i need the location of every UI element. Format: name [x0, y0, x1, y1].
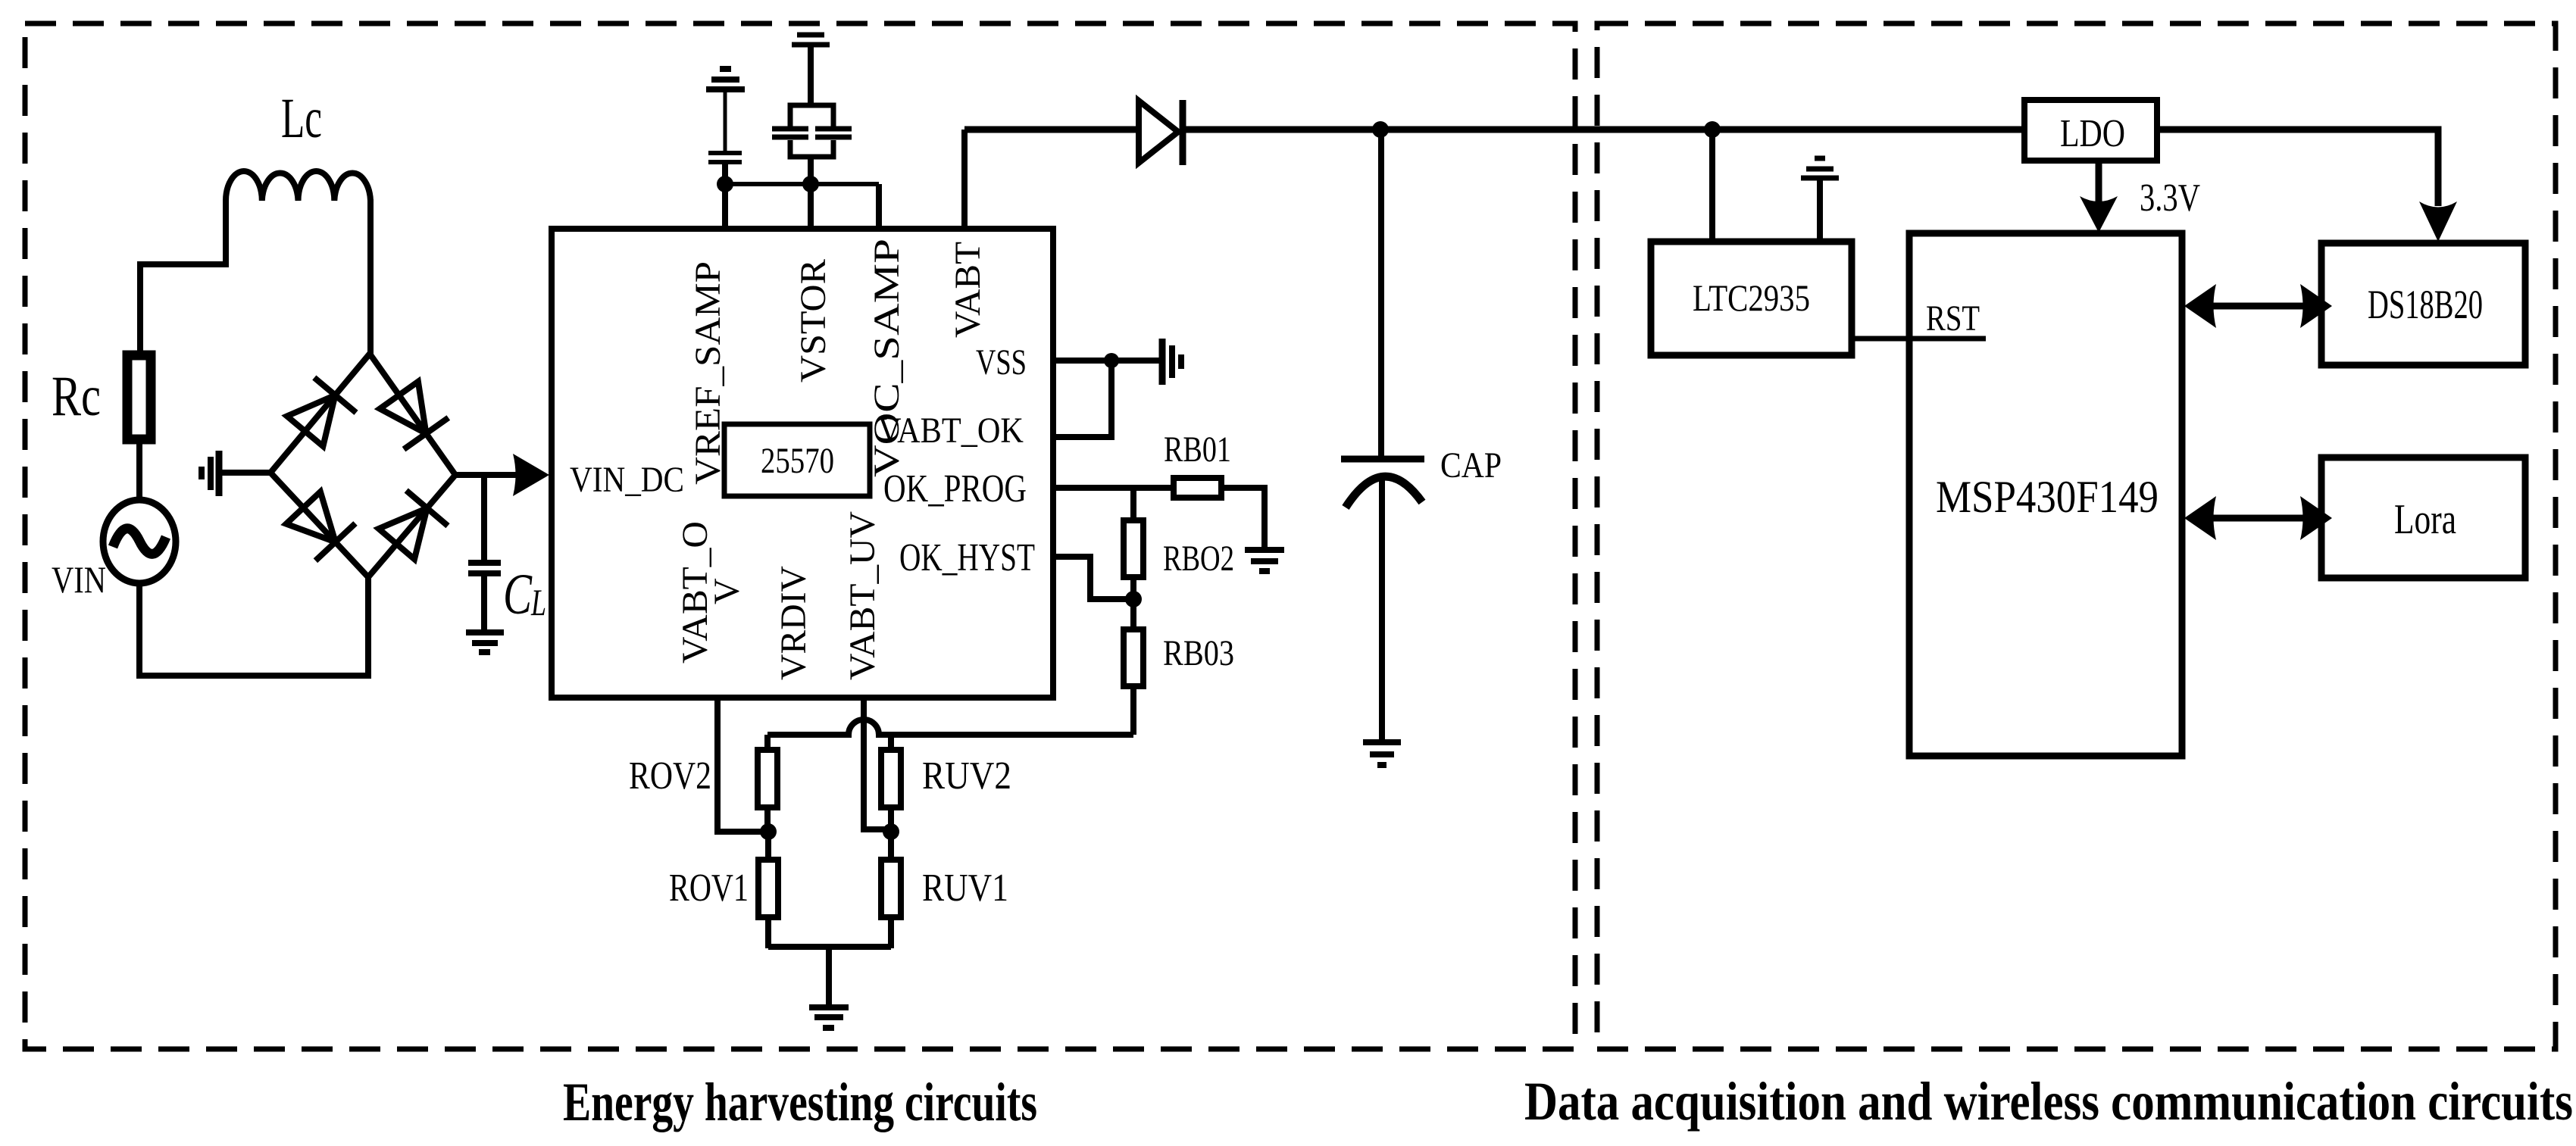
- ground below CAP: [1363, 742, 1401, 765]
- ground at VSS (pointing right): [1162, 339, 1181, 385]
- svg-text:VREF_SAMP: VREF_SAMP: [688, 261, 728, 485]
- svg-text:Rc: Rc: [52, 365, 101, 428]
- svg-text:L: L: [530, 581, 546, 623]
- pin label OK_HYST: [899, 536, 1035, 579]
- double arrow MSP to DS18B20: [2184, 284, 2332, 328]
- label RB01: [1164, 429, 1231, 470]
- svg-text:OK_PROG: OK_PROG: [883, 467, 1027, 511]
- dashed frame: energy harvesting box: [25, 23, 1575, 1049]
- node at VREF pin: [717, 176, 733, 192]
- ground below CL: [466, 632, 504, 652]
- svg-text:ROV2: ROV2: [629, 754, 711, 798]
- svg-text:DS18B20: DS18B20: [2368, 282, 2483, 327]
- resistor Rc: [127, 355, 151, 439]
- node LTC tap: [1704, 121, 1721, 138]
- wire LDO to DS18B20: [2157, 130, 2438, 206]
- block Lora: [2321, 457, 2525, 578]
- block DS18B20: [2321, 243, 2525, 365]
- label RBO2: [1163, 539, 1234, 579]
- svg-text:VIN_DC: VIN_DC: [570, 460, 684, 500]
- wire VABT_OV pin: [717, 698, 768, 832]
- block LTC2935: [1651, 242, 1852, 355]
- pin label VREF_SAMP: [688, 261, 728, 485]
- resistor RUV1: [881, 832, 901, 948]
- label RUV1: [922, 867, 1008, 910]
- svg-text:C: C: [503, 563, 533, 626]
- wire divider bottom: [768, 947, 891, 1005]
- svg-text:VRDIV: VRDIV: [774, 566, 814, 680]
- ground above LTC (inverted): [1801, 158, 1839, 242]
- svg-text:Lc: Lc: [281, 87, 322, 150]
- pin label VSS: [976, 342, 1027, 383]
- ground after RB01: [1245, 550, 1284, 571]
- svg-text:Lora: Lora: [2394, 496, 2456, 543]
- label VIN: [52, 558, 106, 601]
- svg-text:ROV1: ROV1: [669, 867, 749, 910]
- label RB03: [1163, 633, 1234, 673]
- resistor ROV1: [758, 832, 778, 948]
- wire top pins bus: [725, 182, 879, 186]
- wire RBO2 to RB03: [1130, 577, 1136, 629]
- resistor RBO2: [1124, 520, 1143, 577]
- svg-text:Data acquisition and wireless: Data acquisition and wireless communicat…: [1524, 1071, 2573, 1132]
- capacitor at VREF_SAMP: [708, 153, 742, 162]
- svg-text:MSP430F149: MSP430F149: [1936, 472, 2159, 522]
- ground below dividers: [809, 1007, 849, 1028]
- caption: Data acquisition and wireless communication circuits: [1524, 1071, 2573, 1132]
- caption: Energy harvesting circuits: [563, 1072, 1037, 1132]
- wire down to CAP: [1378, 130, 1384, 456]
- capacitor CAP (polarized): [1341, 459, 1424, 507]
- diode bridge bottom-left: [286, 492, 355, 561]
- resistor ROV2: [758, 735, 777, 832]
- label RST: [1926, 298, 1980, 339]
- svg-text:LTC2935: LTC2935: [1693, 276, 1810, 319]
- pin label OK_PROG: [883, 467, 1027, 511]
- svg-text:3.3V: 3.3V: [2140, 176, 2200, 220]
- svg-text:VABT: VABT: [948, 242, 988, 338]
- pin label VABT_OK: [878, 411, 1024, 451]
- svg-text:Energy harvesting circuits: Energy harvesting circuits: [563, 1072, 1037, 1132]
- pin label VIN_DC: [570, 460, 684, 500]
- svg-text:RB01: RB01: [1164, 429, 1231, 470]
- block MSP430F149: [1909, 233, 2182, 756]
- wire VOC_SAMP pin: [876, 184, 882, 229]
- wire top rail right: [1183, 126, 2024, 133]
- label ROV1: [669, 867, 749, 910]
- svg-text:RUV1: RUV1: [922, 867, 1008, 910]
- wire VABT riser: [961, 130, 968, 229]
- wire RST: [1852, 336, 1986, 342]
- wire RB01 to ground: [1221, 488, 1265, 548]
- bridge rectifier frame: [270, 354, 455, 577]
- svg-text:RBO2: RBO2: [1163, 539, 1234, 579]
- wire VABT_UV pin: [864, 698, 891, 829]
- diode bridge top-left: [287, 378, 356, 447]
- double arrow MSP to Lora: [2184, 496, 2332, 540]
- resistor RB03: [1124, 629, 1143, 686]
- svg-text:RST: RST: [1926, 298, 1980, 339]
- svg-text:OK_HYST: OK_HYST: [899, 536, 1035, 579]
- svg-text:25570: 25570: [761, 441, 834, 481]
- svg-text:V: V: [707, 578, 747, 604]
- label RUV2: [922, 754, 1011, 798]
- svg-text:LDO: LDO: [2060, 112, 2125, 155]
- wire RB03 down: [1130, 686, 1136, 735]
- svg-text:VABT_OK: VABT_OK: [878, 411, 1024, 451]
- pin label VABT_UV: [843, 511, 883, 680]
- IC U1 25570 body: [552, 229, 1053, 698]
- wire top rail left: [964, 126, 1139, 133]
- wire LTC drop: [1709, 130, 1715, 242]
- node ROV: [760, 823, 777, 840]
- wire VABT_OK: [1053, 361, 1111, 437]
- ground at bridge left (pointing left): [202, 451, 270, 496]
- pin label VOC_SAMP: [867, 239, 907, 477]
- wire divider bus with hop: [767, 720, 1133, 735]
- node RUV: [883, 823, 899, 840]
- svg-text:RUV2: RUV2: [922, 754, 1011, 798]
- pin label VABT_OV (two lines rotated): [675, 521, 747, 664]
- wire VREF pin: [722, 164, 728, 229]
- label CL: [503, 563, 546, 626]
- wire VSS to ground: [1053, 358, 1162, 364]
- wire bridge out to IC with arrow: [455, 454, 549, 496]
- pin label VABT: [948, 242, 988, 338]
- label ROV2: [629, 754, 711, 798]
- wire VSTOR pin: [808, 157, 814, 229]
- diode D1: [1139, 100, 1183, 165]
- wire coil left lead: [140, 199, 226, 351]
- diode bridge top-right: [380, 382, 449, 449]
- label 3.3V: [2140, 176, 2200, 220]
- wire coil right lead to bridge top: [367, 199, 374, 354]
- node VSS: [1104, 353, 1119, 368]
- source VIN: [103, 500, 176, 583]
- svg-text:VSS: VSS: [976, 342, 1027, 383]
- node at VSTOR pin: [802, 176, 819, 192]
- svg-text:CAP: CAP: [1440, 445, 1502, 486]
- IC inner box 25570: [724, 424, 870, 496]
- ground above VREF cap (inverted): [706, 69, 745, 151]
- svg-text:VIN: VIN: [52, 558, 106, 601]
- diode bridge bottom-right: [379, 491, 448, 560]
- block LDO: [2024, 100, 2157, 161]
- resistor RUV2: [881, 735, 901, 832]
- parallel capacitors at VSTOR: [772, 105, 852, 157]
- label Lc: [281, 87, 322, 150]
- node RBO2/RB03: [1125, 591, 1142, 607]
- svg-text:VSTOR: VSTOR: [793, 259, 833, 383]
- arrow into DS18B20: [2419, 201, 2457, 242]
- ground above VSTOR caps (inverted): [792, 23, 830, 105]
- inductor Lc: [226, 171, 370, 201]
- label Rc: [52, 365, 101, 428]
- wire stub OK_PROG to RBO2: [1130, 488, 1136, 520]
- pin label VRDIV: [774, 566, 814, 680]
- node CAP tap: [1372, 121, 1389, 138]
- wire OK_PROG to RB01: [1053, 485, 1174, 491]
- wire LDO down arrow: [2080, 161, 2118, 233]
- svg-text:VABT_UV: VABT_UV: [843, 511, 883, 680]
- wire OK_HYST: [1053, 557, 1133, 599]
- wire CAP to ground: [1379, 480, 1385, 741]
- dashed frame: data acquisition box: [1597, 23, 2556, 1049]
- capacitor CL: [468, 475, 501, 629]
- wire Rc to VIN: [136, 439, 142, 501]
- label CAP: [1440, 445, 1502, 486]
- resistor RB01: [1174, 478, 1221, 498]
- wire VIN bottom loop: [139, 577, 368, 676]
- pin label VSTOR: [793, 259, 833, 383]
- svg-text:RB03: RB03: [1163, 633, 1234, 673]
